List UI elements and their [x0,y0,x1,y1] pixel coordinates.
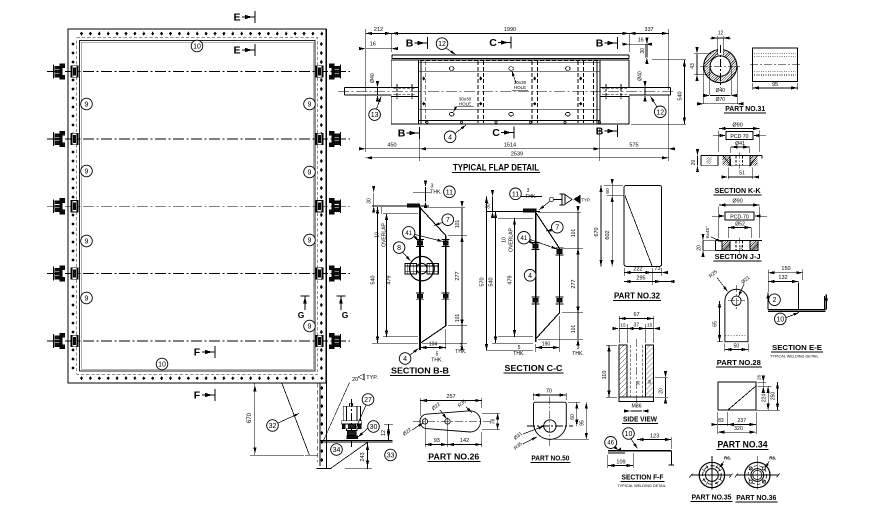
gusset 32 diagonal [282,384,310,456]
part 28 weld dotted line [725,335,748,337]
section C-C main plate [535,212,537,342]
flap weld diamonds [422,77,425,81]
svg-text:Ø90: Ø90 [732,199,742,205]
flap dim dia40 right [644,88,646,95]
label 12 circle top [436,38,448,50]
svg-text:8: 8 [397,245,401,252]
section B-B bottom dims [420,347,446,349]
svg-text:277: 277 [455,271,461,280]
label 11 circle BB [444,186,456,198]
svg-text:101: 101 [571,325,577,334]
part 50 dim 60 [568,401,580,403]
section B-B clips item 41 [417,241,422,245]
svg-text:C: C [489,37,497,49]
svg-text:67: 67 [633,312,639,318]
svg-text:450: 450 [387,142,396,148]
section K-K dim dia41 [730,147,732,153]
svg-text:132: 132 [778,275,787,281]
flap dim 540 right [652,59,686,61]
svg-text:320: 320 [734,426,743,432]
svg-text:SECTION J-J: SECTION J-J [715,252,761,261]
svg-text:12: 12 [381,430,387,436]
part 26 dim 257 [419,398,421,416]
svg-text:60: 60 [605,188,611,194]
support post diamonds [320,386,323,390]
side view dim 20 [655,377,668,379]
svg-text:SECTION K-K: SECTION K-K [715,186,762,195]
flap blade plate item 12 [392,54,629,56]
part 35 crosshairs [691,474,732,476]
svg-text:540: 540 [489,277,495,286]
part 32 body [624,186,661,267]
part 31 dim dia40 [709,66,711,95]
svg-text:PART NO.26: PART NO.26 [428,452,479,462]
svg-text:9: 9 [85,296,89,303]
weld note 20 TYP leader [324,383,350,441]
svg-text:20: 20 [352,377,358,383]
label 4 circle BB bottom [399,353,411,365]
svg-text:104: 104 [429,342,438,348]
svg-text:7: 7 [555,225,559,232]
part 36 bolt holes [762,480,765,483]
svg-text:95: 95 [579,420,585,426]
svg-text:THK.: THK. [431,358,442,364]
svg-text:1990: 1990 [504,27,516,33]
section B-B shaft through hub [405,264,417,274]
label 8 circle BB [393,242,405,254]
svg-text:M36: M36 [631,404,641,410]
part 28 dim 65 [718,300,732,302]
svg-text:2: 2 [773,297,777,304]
svg-text:257: 257 [446,394,455,400]
svg-text:101: 101 [455,220,461,229]
svg-text:110: 110 [602,371,608,380]
label 32 circle [267,420,279,432]
flap left shaft [345,87,392,89]
section F-F dim 123 [670,437,672,449]
svg-text:B: B [596,38,604,50]
part 28 dim 50 [724,344,726,352]
section E-E dim 150 [767,270,769,293]
label 33 circle [385,449,397,461]
part 50 dim 70 [532,393,534,400]
flap dim row bottom [365,95,367,152]
svg-text:THK.: THK. [525,194,536,200]
svg-text:13: 13 [371,112,379,119]
part 34 bottom dims [717,412,719,434]
svg-text:570: 570 [480,277,486,286]
section B-B dim 3 THK top [425,187,427,202]
svg-text:PART NO.31: PART NO.31 [725,104,765,113]
section K-K dim PCD 70 boxed [726,132,753,140]
label 10 circle EE [775,313,787,325]
svg-text:43: 43 [690,63,696,69]
svg-text:12: 12 [438,41,446,48]
svg-text:TYPICAL FLAP DETAIL: TYPICAL FLAP DETAIL [453,163,539,173]
svg-text:20: 20 [691,160,697,166]
flap stiffener dashed verticals [424,61,426,123]
part 50 hole [544,420,556,432]
section B-B blade bar item 11 [408,204,420,207]
part 31 dim 12 keyway [717,36,719,48]
label 13 circle [369,109,381,121]
section C-C bottom dims [536,347,560,349]
label 2 circle EE [769,294,781,306]
part 50 centerlines [549,397,551,447]
svg-text:190: 190 [542,342,551,348]
svg-text:SECTION F-F: SECTION F-F [622,473,665,482]
frame label 9 circles left [81,98,93,110]
part 26 centerline [413,420,492,422]
flap dim dia40 left [377,88,379,95]
side view dims 15 37 15 [626,324,628,343]
main frame outer border [68,29,326,383]
main frame bolt diamonds right column [320,42,323,46]
svg-text:16: 16 [370,42,376,48]
svg-text:30: 30 [370,424,378,431]
svg-text:TYP.: TYP. [581,198,590,203]
section B-B top diagonal [420,208,446,236]
svg-text:20: 20 [659,388,665,394]
svg-text:R6.: R6. [724,456,731,461]
part 36 circles [745,462,770,487]
svg-text:9: 9 [308,102,312,109]
svg-text:SECTION C-C: SECTION C-C [505,364,563,373]
part 35 spoke ticks [719,479,722,481]
svg-text:Ø90: Ø90 [732,123,742,129]
svg-text:PART NO.35: PART NO.35 [692,492,732,501]
dimension 12 support [388,424,390,440]
svg-text:101: 101 [455,314,461,323]
part 26 lever outline [420,411,481,432]
part 31 hatch ring [666,45,776,87]
svg-text:670: 670 [594,227,600,236]
support post right edge lines [319,383,321,466]
svg-text:10: 10 [776,316,784,323]
label 30 circle [368,421,380,433]
label 46 circle FF [605,437,617,449]
svg-text:4: 4 [448,134,452,141]
section B-B dim 479 [383,213,418,215]
part 36 leader R [765,462,769,468]
main frame bolt diamonds bottom row [80,376,83,380]
svg-text:540: 540 [677,91,683,100]
svg-text:34: 34 [333,447,341,454]
svg-text:F: F [194,347,201,359]
svg-text:TYP.: TYP. [366,375,378,381]
svg-text:PART NO.50: PART NO.50 [531,454,569,463]
svg-text:9: 9 [85,169,89,176]
part 26 bottom dims 93 142 [424,425,426,447]
section J-J dim 20 [702,240,704,250]
svg-text:93: 93 [434,438,440,444]
flap bottom spot welds [426,121,428,123]
svg-text:9: 9 [85,102,89,109]
side view thread dashed lines [630,345,632,397]
part 34 dim 224 [767,386,769,410]
svg-text:41: 41 [405,231,412,237]
part 50 body [534,402,567,439]
side view dim 67 [618,316,620,343]
svg-text:C: C [492,127,500,139]
svg-text:6x45°: 6x45° [705,226,711,238]
section C-C weld symbol [549,197,553,201]
jack actuator centerline [351,399,353,447]
section mark G right [340,296,342,310]
svg-text:479: 479 [387,275,393,284]
label 4 circle flap [444,131,456,143]
part 36 crosshairs [736,474,779,476]
svg-text:277: 277 [571,279,577,288]
part 50 dim 95 [553,438,589,440]
label 34 circle [331,444,343,456]
flap right shaft [629,87,670,89]
svg-text:33: 33 [387,453,395,460]
svg-text:PART NO.36: PART NO.36 [736,493,776,502]
svg-text:2539: 2539 [511,151,523,157]
svg-text:16: 16 [739,245,743,249]
label 4 circle CC [524,270,536,282]
part 34 diagonal [728,386,756,410]
flap holes [449,67,454,71]
svg-text:Ø40: Ø40 [638,71,644,81]
side view centerline [635,339,637,407]
svg-text:4: 4 [403,356,407,363]
frame label 10 bottom [156,358,168,370]
svg-text:G: G [298,310,305,320]
svg-text:R6.: R6. [769,456,776,461]
part 34 plate [718,382,756,410]
label 7 circle CC [552,221,564,233]
part 34 dim 26 [758,381,767,383]
svg-text:83: 83 [718,418,724,424]
svg-text:295: 295 [636,276,645,282]
svg-text:F: F [194,390,201,402]
main frame inner flange double line [80,41,316,372]
svg-text:27: 27 [364,397,372,404]
svg-text:10: 10 [193,44,201,51]
section B-B right dims 101 277 101 [448,234,467,236]
dimension 670 support [254,384,256,456]
section F-F dim 109 [607,455,609,468]
svg-text:10: 10 [375,232,381,238]
svg-text:46: 46 [607,441,614,447]
label 10 circle FF [623,428,635,440]
label 7 circle BB [442,214,454,226]
section B-B blade top line [372,205,429,207]
svg-text:1514: 1514 [504,142,516,148]
svg-text:237: 237 [737,418,746,424]
svg-text:OVERLAP: OVERLAP [509,228,515,252]
main frame bolt diamonds top row [80,32,83,36]
section B-B hub item 8 [410,256,434,280]
svg-text:602: 602 [605,230,611,239]
label 27 circle [362,394,374,406]
svg-text:Ø70: Ø70 [716,97,726,103]
frame label 10 top [191,40,203,52]
section E-E angle plate [768,309,826,311]
right hinges [316,64,341,80]
svg-text:10: 10 [158,362,166,369]
svg-text:9: 9 [308,238,312,245]
svg-text:150: 150 [781,266,790,272]
svg-text:PART NO.34: PART NO.34 [718,440,768,450]
flap left hub block [391,60,418,87]
part 31 dim 43 [694,53,711,55]
section C-C dim 30 top [492,197,494,212]
mounting shelf [320,439,392,441]
section B-B main plate [419,207,421,350]
section E-E mid plate edge [798,283,800,310]
svg-text:95: 95 [772,82,778,88]
svg-text:479: 479 [508,275,514,284]
part 31 dim dia70 [702,66,704,103]
svg-text:9: 9 [85,239,89,246]
section J-J dim dia52 [727,228,729,239]
svg-text:7: 7 [446,217,450,224]
side view fork right bar [646,345,654,397]
svg-text:73: 73 [654,266,660,272]
svg-text:212: 212 [374,27,383,33]
svg-text:G: G [342,310,349,320]
svg-text:E: E [233,45,240,57]
support post bottom end [317,468,332,470]
section K-K dim dia90 [718,131,720,153]
svg-text:Ø41: Ø41 [735,141,745,147]
label 12 circle right [654,106,666,118]
svg-text:THK.: THK. [572,351,583,357]
svg-text:Ø40: Ø40 [370,73,376,83]
part 32 bottom dims [623,268,625,276]
svg-text:PART NO.28: PART NO.28 [717,358,761,367]
svg-text:540: 540 [371,275,377,284]
section B-B bottom diagonal [420,326,446,344]
svg-text:37: 37 [634,322,640,328]
svg-text:11: 11 [446,189,453,196]
section C-C right dims [562,247,583,249]
jack actuator body [349,403,351,406]
section J-J dim PCD-70 boxed [725,212,754,220]
svg-text:36: 36 [636,380,641,385]
dimension 243 [367,442,369,469]
label 41 circle CC [518,232,530,244]
gusset 34 triangle diagonal [331,442,369,469]
svg-text:670: 670 [247,412,253,423]
svg-text:30: 30 [367,198,373,204]
flap dim 16 left [366,48,392,50]
svg-text:41: 41 [521,236,528,242]
svg-text:337: 337 [644,27,653,33]
svg-text:32: 32 [269,423,277,430]
svg-text:HOLE: HOLE [514,85,526,90]
flap body stiffener lines [418,62,600,64]
main frame bolt diamonds left column [71,42,74,46]
svg-text:16: 16 [638,38,644,44]
section C-C clips item 41 [533,244,538,248]
section C-C bottom diagonal [536,313,560,339]
section C-C top diagonal [536,212,560,248]
svg-text:TYPICAL WELDING DETAIL: TYPICAL WELDING DETAIL [770,355,819,359]
svg-text:11: 11 [512,191,519,198]
part 28 lug body [725,289,748,341]
svg-text:30: 30 [640,48,646,54]
section E-E dim 132 [768,281,799,283]
svg-text:THK.: THK. [430,190,441,196]
section K-K flange body [718,154,762,156]
section E-E left arm arrow [767,293,769,310]
svg-text:Ø40: Ø40 [716,88,726,94]
part 26 dim 76 [482,412,500,414]
svg-text:SIDE VIEW: SIDE VIEW [623,415,657,424]
svg-text:15: 15 [620,322,626,328]
svg-text:HOLE: HOLE [459,102,471,107]
part 35 leader R [720,462,724,468]
svg-text:142: 142 [460,438,469,444]
part 28 hole [732,296,741,305]
label 41 circle BB [403,227,415,239]
part 35 wheel circles [699,462,724,487]
svg-text:B: B [406,38,414,50]
svg-text:36: 36 [647,379,652,384]
svg-text:15: 15 [647,322,653,328]
svg-text:9: 9 [308,324,312,331]
section C-C top line [487,210,540,212]
part 32 dim 602 and 60 [607,195,624,197]
section B-B hub circles redraw [410,256,434,280]
flap centerline [338,90,675,92]
svg-text:TYPICAL WELDING DETAIL: TYPICAL WELDING DETAIL [617,484,666,488]
section K-K left bar and dim 20 [701,154,718,156]
flap body plate [418,60,600,124]
flap right hub block [600,60,629,87]
section J-J flange body [716,239,763,241]
svg-text:76: 76 [491,419,497,425]
svg-text:65: 65 [713,321,719,327]
svg-text:101: 101 [571,229,577,238]
svg-text:123: 123 [650,434,659,440]
section F-F plate [608,450,672,452]
svg-text:70: 70 [546,389,552,395]
section C-C dim 570 540 479 [488,197,490,351]
svg-text:50: 50 [734,344,740,350]
section mark G left [304,296,306,310]
svg-text:575: 575 [629,142,638,148]
svg-text:26: 26 [757,375,762,381]
frame label 9 circles right [304,98,316,110]
svg-text:10: 10 [625,431,633,438]
part 31 bush circles [704,50,737,83]
section C-C blade bar item 11 [524,209,536,212]
part 28 centerlines [735,285,737,310]
svg-text:SECTION B-B: SECTION B-B [391,367,449,376]
svg-text:E: E [233,12,240,24]
hinge centerlines dash-dot [47,71,350,73]
part 31 centerlines [700,65,741,67]
part 31 side view rect [753,48,798,82]
label 11 circle CC [510,188,522,200]
svg-text:THK.: THK. [513,351,524,357]
section K-K dim 51 [727,168,729,180]
svg-text:B: B [398,128,406,140]
svg-text:Ø52: Ø52 [735,222,745,228]
part 31 dim 95 [752,83,754,90]
svg-text:PCD 70: PCD 70 [730,134,748,140]
svg-text:12: 12 [718,31,724,37]
main frame inner dashed seal line [77,38,318,375]
svg-text:THK.: THK. [455,349,466,355]
part 31 keyway notch [717,48,719,55]
flap dim row top [365,29,367,92]
